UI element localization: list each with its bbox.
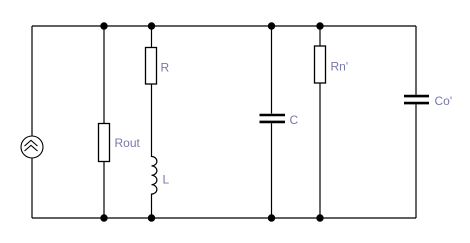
wire Rout branch upper [103, 26, 105, 124]
wire left branch upper segment [31, 26, 33, 136]
capacitor Co' [404, 96, 429, 103]
wire right branch lower [415, 104, 417, 218]
node C-bottom [268, 214, 275, 221]
wire L branch lower [151, 194, 153, 219]
inductor L [152, 157, 157, 195]
current source [21, 136, 43, 158]
svg-text:R: R [161, 61, 170, 75]
wire left branch lower segment [31, 158, 33, 218]
svg-text:L: L [163, 173, 170, 187]
capacitor C [260, 115, 286, 122]
resistor Rout [99, 124, 110, 162]
label L [163, 173, 170, 187]
label Rn' [331, 60, 349, 74]
wire top rail [32, 25, 416, 27]
label C [290, 113, 299, 127]
wire C branch lower [271, 123, 273, 218]
wire Rout branch lower [103, 162, 105, 219]
label Rout [115, 136, 141, 150]
wire R branch upper [151, 26, 153, 48]
svg-text:Co': Co' [435, 94, 453, 108]
label R [161, 61, 170, 75]
wire Rn' branch upper [319, 26, 321, 47]
node Rout-top [100, 22, 107, 29]
svg-text:Rout: Rout [115, 136, 141, 150]
resistor Rn' [315, 46, 326, 83]
node C-top [268, 22, 275, 29]
wire right branch upper [415, 26, 417, 95]
svg-text:Rn': Rn' [331, 60, 349, 74]
node Rn'-bottom [316, 214, 323, 221]
resistor R [146, 48, 157, 85]
wire Rn' branch lower [319, 83, 321, 218]
node R-top [148, 22, 155, 29]
label Co' [435, 94, 453, 108]
node Rout-bottom [100, 214, 107, 221]
wire C branch upper [271, 26, 273, 114]
wire bottom rail [32, 217, 416, 219]
node Rn'-top [316, 22, 323, 29]
svg-text:C: C [290, 113, 299, 127]
wire R to L segment [151, 84, 153, 157]
node L-bottom [148, 214, 155, 221]
